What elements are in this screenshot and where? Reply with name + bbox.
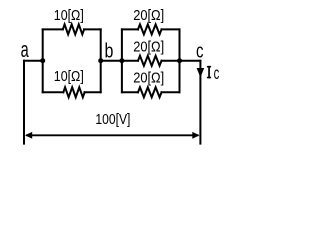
svg-text:20[Ω]: 20[Ω] [133, 71, 164, 87]
wire box1 top branch left stub [43, 28, 63, 30]
svg-text:a: a [21, 37, 30, 62]
resistor R1 10 ohm top-left zigzag [63, 24, 84, 34]
wire box1 bottom branch left stub [43, 91, 64, 93]
resistor R3 20 ohm top zigzag [138, 24, 162, 34]
resistor R2 10 ohm bottom-left zigzag [63, 87, 84, 97]
svg-text:20[Ω]: 20[Ω] [133, 40, 164, 56]
wire box1 right side [100, 29, 102, 92]
voltage dimension arrow line 100V [27, 134, 198, 136]
node b junction dot right [119, 58, 124, 63]
node a junction dot [40, 58, 45, 63]
node b junction dot left [98, 58, 103, 63]
resistor R4 20 ohm middle zigzag [138, 56, 162, 66]
svg-text:b: b [104, 40, 113, 62]
wire box1 bottom branch right stub [85, 91, 101, 93]
wire box1 top branch right stub [84, 28, 101, 30]
svg-text:100[V]: 100[V] [95, 112, 130, 128]
label current Ic [207, 66, 211, 78]
wire lead c: box2 right to right rail corner [180, 60, 201, 62]
wire box2 left side [121, 29, 123, 92]
wire box2 bottom branch left stub [122, 91, 138, 93]
resistor R5 20 ohm bottom zigzag [138, 87, 162, 97]
wire left rail down [23, 61, 25, 144]
voltage dimension arrowhead right [192, 132, 199, 139]
wire lead a: node a to box1 left [24, 60, 43, 62]
current arrow Ic head on right rail [197, 68, 205, 78]
wire box2 bottom branch right stub [162, 91, 180, 93]
wire box2 right side [179, 29, 181, 92]
wire box2 middle branch right stub [162, 60, 180, 62]
svg-text:c: c [214, 64, 220, 84]
svg-text:c: c [196, 39, 204, 62]
svg-text:10[Ω]: 10[Ω] [54, 8, 84, 24]
voltage dimension arrowhead left [25, 132, 32, 139]
node c junction dot [177, 58, 182, 63]
wire box1 left side [42, 29, 44, 92]
wire box2 top branch left stub [122, 28, 138, 30]
svg-text:10[Ω]: 10[Ω] [54, 69, 84, 85]
wire lead b: box1 right to box2 left [101, 60, 122, 62]
wire right rail down [199, 61, 201, 144]
svg-text:20[Ω]: 20[Ω] [133, 8, 164, 24]
wire box2 top branch right stub [162, 28, 180, 30]
wire box2 middle branch left stub [122, 60, 138, 62]
